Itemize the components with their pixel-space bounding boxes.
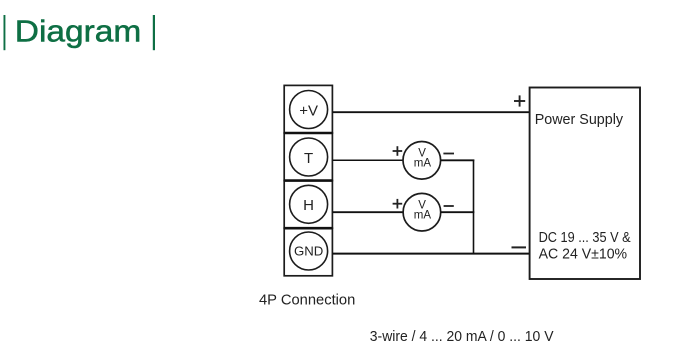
terminal block cell 1 (+V): [284, 85, 332, 133]
title "| Diagram |": [4, 15, 156, 50]
plus sign at M1: [393, 146, 403, 156]
wire M2 to bus: [441, 211, 475, 213]
terminal block cell 3 (H): [284, 181, 332, 229]
svg-text:AC 24 V±10%: AC 24 V±10%: [539, 247, 628, 263]
wire T to meter M1: [333, 159, 404, 161]
svg-text:Diagram: Diagram: [15, 15, 142, 48]
separator cell2/cell3: [284, 179, 332, 182]
svg-text:4P Connection: 4P Connection: [259, 293, 355, 309]
plus sign at power supply: [514, 95, 525, 106]
wire H to meter M2: [333, 211, 404, 213]
vertical bus wire: [473, 160, 475, 254]
meter M1 (V/mA): [403, 142, 441, 180]
wire +V to power supply: [333, 111, 530, 113]
power supply box: [530, 88, 640, 280]
separator cell3/cell4: [284, 227, 332, 230]
wire M1 to bus corner: [441, 159, 475, 161]
svg-text:Power Supply: Power Supply: [535, 112, 624, 128]
minus sign at M2: [444, 205, 454, 207]
svg-text:DC 19 ... 35 V &: DC 19 ... 35 V &: [539, 230, 631, 246]
plus sign at M2: [393, 199, 403, 209]
meter M2 (V/mA): [403, 193, 441, 231]
svg-text:mA: mA: [414, 210, 432, 222]
wire GND to power supply: [333, 253, 530, 255]
svg-text:GND: GND: [294, 244, 323, 259]
terminal block cell 2 (T): [284, 133, 332, 181]
svg-text:T: T: [304, 150, 313, 167]
svg-text:H: H: [303, 197, 314, 214]
svg-text:mA: mA: [414, 157, 432, 169]
minus sign at M1: [443, 153, 454, 155]
minus sign at power supply: [512, 246, 527, 248]
terminal block cell 4 (GND): [284, 228, 332, 276]
svg-text:+V: +V: [299, 102, 318, 119]
svg-text:3-wire / 4 ... 20 mA / 0 ... 1: 3-wire / 4 ... 20 mA / 0 ... 10 V: [370, 329, 554, 345]
separator cell1/cell2: [284, 132, 332, 135]
